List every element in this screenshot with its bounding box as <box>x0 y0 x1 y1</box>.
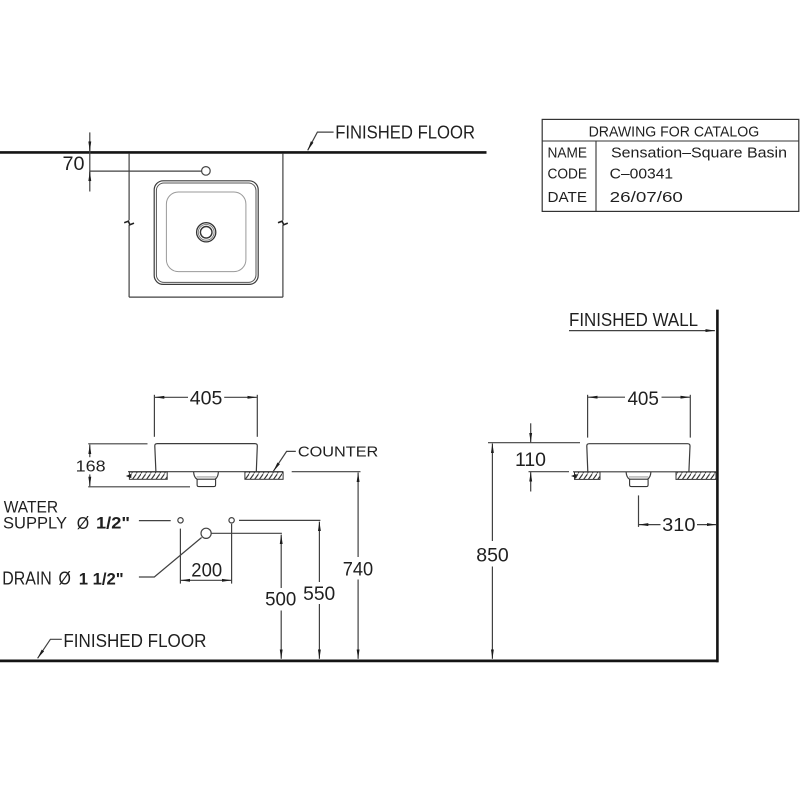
dim 405 side left extension line <box>587 395 589 438</box>
svg-text:DATE: DATE <box>548 189 588 206</box>
reference line from right supply hole to 550 dim <box>239 519 320 521</box>
leader FINISHED FLOOR (bottom) <box>38 639 62 658</box>
svg-text:SUPPLY: SUPPLY <box>3 514 67 533</box>
counter hatch left end tick (front) <box>126 474 132 478</box>
dim 740 top extension line <box>292 471 361 473</box>
dim 168 bottom extension line / counter bottom line <box>88 486 190 488</box>
drain inner circle (plan) <box>200 227 212 239</box>
basin inner bowl (plan) <box>166 192 246 272</box>
faucet hole (plan) <box>202 167 211 176</box>
svg-text:26/07/60: 26/07/60 <box>610 189 683 206</box>
svg-text:500: 500 <box>265 590 296 611</box>
dim 310 extension line below drain <box>638 495 640 527</box>
drain assembly (front elevation) <box>194 472 219 487</box>
svg-text:110: 110 <box>515 450 546 471</box>
dim 168 upper arrow <box>89 445 91 458</box>
dim 405 front dimension line left part <box>155 396 188 398</box>
svg-text:200: 200 <box>191 560 222 581</box>
svg-text:FINISHED FLOOR: FINISHED FLOOR <box>335 121 475 142</box>
svg-text:NAME: NAME <box>548 145 588 162</box>
dim 850 lower line with arrow <box>491 567 493 659</box>
dim 550 lower line with arrow <box>318 604 320 659</box>
svg-text:FINISHED WALL: FINISHED WALL <box>569 309 698 330</box>
dim 405 side dimension line right part <box>662 396 690 398</box>
counter hatch right (side) <box>676 472 716 479</box>
svg-text:550: 550 <box>303 584 335 605</box>
dim 110 bottom extension line <box>529 471 570 473</box>
svg-text:C–00341: C–00341 <box>610 166 673 183</box>
counter bottom edge (plan) <box>129 296 283 298</box>
drain flange inner line <box>197 476 216 478</box>
svg-text:70: 70 <box>63 154 85 175</box>
finished floor line (plan, thick) <box>0 151 487 154</box>
counter top line (front) <box>128 471 283 473</box>
finished wall line (thick) <box>716 310 719 663</box>
dim 850 upper line with arrow <box>491 444 493 542</box>
dim 110 upper arrow <box>530 423 532 442</box>
break mark right counter edge <box>278 221 288 225</box>
drain flange left side <box>194 472 197 479</box>
dim 70 lower arrow <box>89 172 91 182</box>
counter hatch left (side) <box>575 472 601 479</box>
title block header divider <box>542 140 799 142</box>
counter top line (side) <box>573 471 716 473</box>
basin body (front elevation) <box>155 444 258 472</box>
dim 405 front left extension line <box>153 395 155 437</box>
finished floor line (bottom, thick) <box>0 660 719 663</box>
svg-text:168: 168 <box>76 459 106 476</box>
dim 200 right extension line <box>231 524 233 584</box>
dim 405 front right extension line <box>256 395 258 437</box>
dim 200 left extension line <box>179 529 181 584</box>
dim 500 lower line with arrow <box>280 611 282 659</box>
dim 500 upper line with arrow <box>280 535 282 588</box>
dim 110 top extension line <box>488 442 580 444</box>
drain tailpiece tube <box>197 479 216 486</box>
dim 168 top extension line <box>88 443 147 445</box>
dim 310 dimension line right part <box>697 524 716 526</box>
dim 310 dimension line left part <box>639 524 661 526</box>
drain outer circle (plan) <box>197 223 216 242</box>
dim 70 vertical line <box>89 132 91 191</box>
counter hatch left (front) <box>129 472 167 479</box>
drain flange right side <box>215 472 218 479</box>
leader COUNTER <box>273 451 295 471</box>
drain hole circle (front) <box>201 528 211 538</box>
leader drain <box>139 538 202 578</box>
dim 550 upper line with arrow <box>318 522 320 582</box>
break mark left counter edge <box>124 221 134 225</box>
counter right edge (plan) <box>282 154 284 298</box>
svg-text:DRAIN: DRAIN <box>2 568 52 588</box>
drain middle circle (plan) <box>198 224 214 240</box>
svg-text:405: 405 <box>190 389 223 410</box>
counter left edge (plan) <box>128 154 130 298</box>
svg-text:DRAWING FOR CATALOG: DRAWING FOR CATALOG <box>589 123 760 140</box>
dim 405 side right extension line <box>689 395 691 438</box>
leader water supply <box>139 520 171 522</box>
leader FINISHED FLOOR (top) <box>308 132 334 150</box>
drain flange bottom line <box>197 478 216 480</box>
dim 740 upper line with arrow <box>357 473 359 558</box>
svg-text:Sensation–Square Basin: Sensation–Square Basin <box>611 144 787 161</box>
dim 740 lower line with arrow <box>357 580 359 659</box>
dim 168 lower arrow <box>89 474 91 486</box>
counter hatch right (front) <box>245 472 283 479</box>
dim 70 upper arrow <box>89 141 91 151</box>
svg-text:Ø: Ø <box>77 513 90 533</box>
water supply hole left circle <box>178 518 183 523</box>
svg-text:740: 740 <box>343 559 373 580</box>
svg-text:FINISHED FLOOR: FINISHED FLOOR <box>63 630 206 651</box>
svg-text:310: 310 <box>662 515 695 535</box>
svg-text:1 1/2": 1 1/2" <box>79 569 124 588</box>
basin outer rim inner line (plan) <box>156 183 256 282</box>
svg-text:Ø: Ø <box>59 569 71 589</box>
basin body (side elevation) <box>587 444 690 472</box>
title block vertical divider <box>595 141 597 211</box>
basin outer rim (plan) <box>154 181 258 285</box>
dim 70 reference line to faucet hole <box>90 170 202 172</box>
svg-text:COUNTER: COUNTER <box>298 443 378 460</box>
title block outer box <box>542 119 799 211</box>
dim 405 front dimension line right part <box>224 396 257 398</box>
svg-text:850: 850 <box>476 545 509 567</box>
dim 110 lower arrow <box>530 472 532 491</box>
water supply hole right circle <box>229 518 234 523</box>
svg-text:405: 405 <box>627 389 659 410</box>
reference line from drain hole to 500 dim <box>212 532 282 534</box>
drain assembly (side elevation) <box>626 472 651 487</box>
dim 200 dimension line <box>181 579 232 581</box>
counter hatch left end tick (side) <box>571 474 577 478</box>
leader FINISHED WALL <box>569 330 715 332</box>
dim 405 side dimension line left part <box>588 396 625 398</box>
svg-text:1/2": 1/2" <box>96 514 130 533</box>
svg-text:CODE: CODE <box>548 166 588 183</box>
